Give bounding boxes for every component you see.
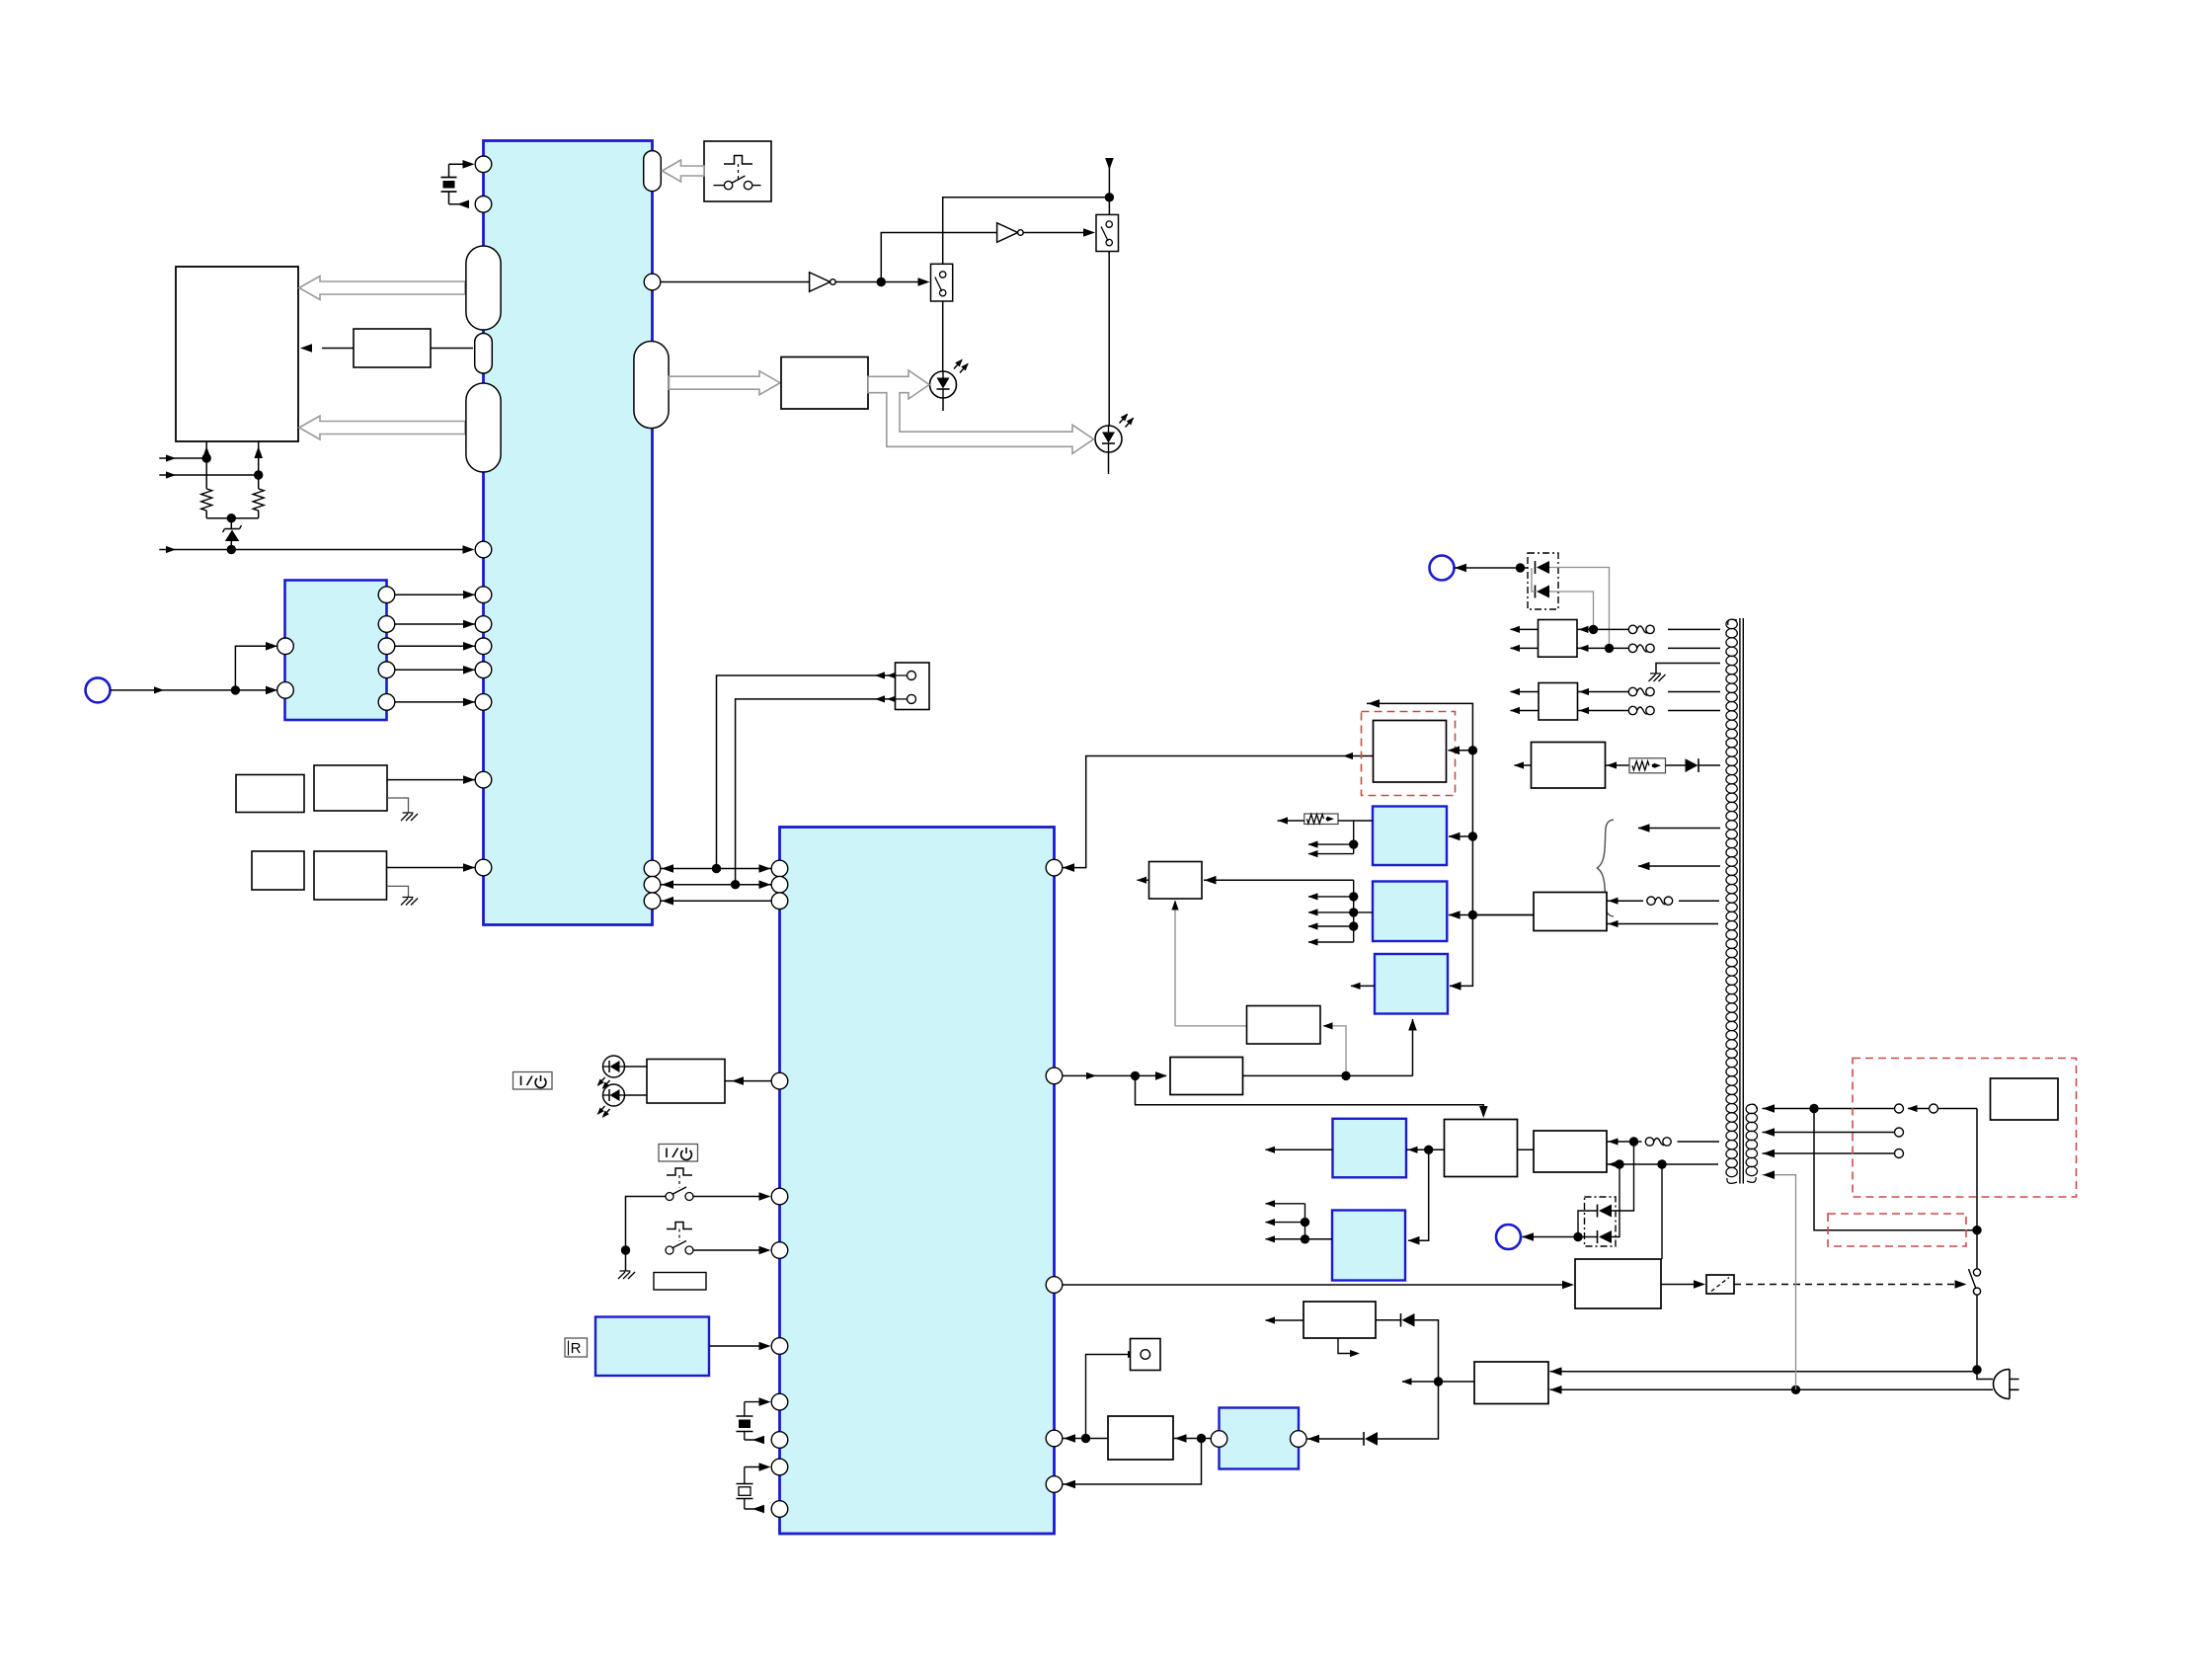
block: rectifier row4 — [1534, 893, 1607, 931]
wire reset line to U1 — [227, 545, 236, 554]
block: LED driver — [781, 357, 868, 410]
fusible resistor FR1 — [1629, 758, 1666, 773]
pin U3 IR in — [771, 1338, 788, 1355]
block: M regulator — [1170, 1058, 1243, 1095]
wires X2 to U3 — [745, 1401, 763, 1403]
hollow arrow LED driver to LEDs (branched) — [868, 370, 1094, 453]
wire riser to connector CN2 line2 — [736, 699, 896, 885]
block: rectifier row3 — [1532, 743, 1606, 789]
wire diode box to CN4 — [1455, 567, 1529, 569]
wire U3 to box E — [1063, 1438, 1108, 1440]
LED D2 (indicator) — [930, 371, 957, 398]
diode D9 — [1666, 764, 1686, 766]
row4 wires — [1472, 914, 1534, 916]
IC U3 main micro / power control (large cyan block) — [780, 828, 1055, 1535]
switch S2 (muting) — [1096, 214, 1119, 251]
pin U3 ac sense 2 — [1046, 1476, 1063, 1493]
block: relay driver — [1575, 1259, 1661, 1308]
pin U3 ac sense — [1046, 1430, 1063, 1447]
fuse F3 — [1628, 687, 1636, 695]
pill U1 key port — [644, 151, 662, 192]
block: display/deck unit (left big box) — [176, 267, 298, 441]
block: regulator IC (cyan 1) — [1373, 807, 1447, 866]
wire lower return to U3 — [1063, 1439, 1202, 1485]
wire small box to U1 pill B — [431, 348, 473, 350]
block: audio in unit (pair2 big) — [314, 851, 387, 900]
AC plug P1 — [1994, 1370, 2019, 1399]
block: rectifier B — [1445, 1120, 1518, 1177]
block: key switch box — [704, 141, 771, 201]
tact switch SW1 power — [667, 1168, 692, 1175]
selector contacts — [1809, 1104, 1818, 1113]
wire S1 to LED1 — [942, 301, 944, 371]
svg-text:R: R — [571, 1340, 582, 1357]
pin U2 right — [378, 638, 395, 655]
wire pair1 ground stub — [387, 798, 409, 813]
pin U3 key2 — [771, 1242, 788, 1259]
pin U3 LED drive — [771, 1072, 788, 1089]
pin U1 power out — [644, 274, 661, 290]
block: jack board (pair1 small) — [236, 775, 304, 813]
pin U1 XTAL2 — [475, 197, 492, 213]
wire cyan A to box B — [1406, 1148, 1445, 1150]
voltage tap terminal — [1895, 1149, 1904, 1158]
wire U2 to U1 — [395, 594, 475, 595]
gray link riser to K — [1323, 1026, 1346, 1076]
pin U3 top left — [771, 876, 788, 893]
pin U3 osc1 — [771, 1459, 788, 1475]
transformer T1 core — [1739, 618, 1741, 1184]
wire U3 to block M — [1063, 1074, 1166, 1076]
bus arrow U1 pill to display box (lower) — [299, 416, 465, 439]
wire SW2 to U3 — [694, 1249, 764, 1251]
pin U3 xtal1 — [771, 1393, 788, 1410]
ground tap row — [1656, 664, 1720, 674]
fuse PF1 — [1645, 1138, 1653, 1146]
wire crystal to U1 pins — [449, 163, 468, 165]
power switch S3 — [1973, 1269, 1980, 1276]
wire pair1 to U1 — [387, 779, 475, 781]
wire B to D — [1518, 1148, 1535, 1150]
block: rectifier row1 — [1539, 620, 1578, 658]
IC U1 system control micro (large cyan block) — [484, 141, 653, 925]
LED D4 power indicator — [603, 1056, 625, 1077]
resistor R-array 1 — [201, 489, 212, 511]
pin U1 left — [475, 638, 492, 655]
block: rectifier row2 — [1539, 683, 1578, 721]
wire junction to inverter Q2 — [881, 233, 996, 282]
wire to headphone circle CN3 — [1523, 1236, 1579, 1238]
red dashed service box 3 (small) — [1828, 1214, 1966, 1246]
resonator X2 — [744, 1402, 746, 1416]
row3 wires — [1515, 764, 1532, 766]
wire M to risers — [1243, 1074, 1413, 1076]
pin U1 pair2 — [475, 859, 492, 876]
wires LEDs to driver box — [625, 1066, 648, 1068]
connector CN3 (blue circle) — [1496, 1225, 1521, 1249]
diode D7 — [1376, 1319, 1401, 1321]
pin U2 right — [378, 694, 395, 711]
block: small label box under switches — [654, 1273, 706, 1291]
bus arrow U1 to LED driver box — [670, 371, 781, 395]
pin U3 key1 — [771, 1188, 788, 1205]
block: IR remote sensor (cyan) — [595, 1317, 709, 1377]
vertical feed bus x=1491 — [1367, 703, 1472, 986]
wires X3 to U3 — [745, 1466, 763, 1468]
wires diodes to junction — [1578, 1211, 1598, 1237]
wire driver to U3 — [725, 1080, 771, 1082]
fuse F4 — [1628, 706, 1636, 714]
cyan2 left cluster — [1353, 880, 1355, 942]
wire S1 top riser — [943, 198, 1110, 264]
pin U2 right — [378, 616, 395, 633]
bus arrow U1 pill to display box (upper) — [299, 277, 465, 300]
pin U3 power sense — [1046, 1068, 1063, 1084]
tact switch SW2 — [667, 1223, 692, 1229]
block: regulator IC (cyan C) — [1332, 1211, 1405, 1281]
selector riser + red dashed box 2 branch — [1976, 1109, 1978, 1269]
gray wires diodes to row junctions — [1549, 568, 1610, 649]
block: F line filter — [1474, 1362, 1548, 1404]
wire U1-U3 bus line — [661, 868, 771, 870]
wire riser to zero-cross circle box — [1086, 1355, 1131, 1439]
wire cyan3 out left — [1351, 985, 1375, 987]
red dashed service box 1 — [1362, 712, 1456, 796]
block: detector K — [1247, 1006, 1321, 1045]
wire SW1 to U3 — [694, 1196, 764, 1198]
block: detector J — [1149, 862, 1203, 900]
wire driver to relay RY1 — [1661, 1284, 1698, 1286]
wire riser to connector CN2 line1 — [717, 675, 896, 869]
pin U3 osc2 — [771, 1501, 788, 1518]
wire U3 to relay driver — [1063, 1284, 1567, 1286]
wire S2 top feed — [1108, 160, 1110, 215]
riser to relay driver — [1661, 1164, 1663, 1259]
LED D5 power indicator — [603, 1084, 625, 1106]
heater tap wires — [1638, 828, 1720, 830]
cyan A to cyan C link — [1408, 1149, 1429, 1240]
wire IR sensor to U3 — [709, 1345, 763, 1347]
wire U1 to inverter Q1 — [661, 281, 810, 283]
resistor R-array 2 — [253, 489, 264, 511]
wire U1-U3 bus line — [661, 884, 771, 886]
wire U2 to U1 — [395, 645, 475, 647]
block: audio in unit (pair1 big) — [314, 765, 387, 811]
ground pair1 — [401, 813, 418, 821]
ground transformer CT — [1649, 673, 1666, 681]
block: regulator STR (in red dashed) — [1374, 721, 1447, 783]
block: photo detector (circle box) — [1131, 1339, 1161, 1371]
pin U1 left — [475, 616, 492, 633]
pin cyan H right — [1291, 1431, 1307, 1448]
pill U1 port C — [466, 383, 501, 472]
pin U1 bottom right — [644, 876, 661, 893]
wire H to diode D8 — [1306, 1438, 1364, 1440]
row1 wires — [1511, 628, 1539, 630]
wires fuse junctions down to diodes — [1612, 1142, 1634, 1211]
resonator X3 (ceramic) — [744, 1467, 746, 1484]
arrow key box to U1 pill — [663, 160, 705, 182]
branch down to box B — [1136, 1075, 1484, 1114]
pin U1 left — [475, 694, 492, 711]
pin U3 xtal2 — [771, 1432, 788, 1449]
wire inverter Q1 to switch S1 — [836, 281, 923, 283]
block: photocoupler (cyan H) — [1220, 1408, 1300, 1469]
wire junction into box F — [1402, 1381, 1439, 1383]
AC line top — [1550, 1371, 1978, 1373]
wire U2 to U1 — [395, 623, 475, 625]
voltage tap terminal — [1895, 1128, 1904, 1137]
block: E filter — [1108, 1416, 1173, 1460]
zener diode D1 — [230, 518, 232, 528]
wire SW1 left leg — [626, 1197, 667, 1251]
wire cyan A out left — [1266, 1148, 1333, 1150]
resistor network above cyan1 — [1304, 814, 1338, 825]
brace heater winding — [1598, 820, 1615, 916]
dual diode D6 (dash-dot box) — [1585, 1197, 1617, 1246]
wire SW2 ground leg — [625, 1250, 627, 1271]
wire D lower to transformer — [1607, 1163, 1718, 1165]
wire U2 to U1 — [395, 669, 475, 671]
gray riser into J bottom — [1174, 901, 1176, 1026]
label power I/O (left) — [513, 1072, 553, 1090]
pill U1 port B — [475, 334, 493, 374]
wire U2 to U1 — [395, 701, 475, 703]
fuse F2 — [1628, 644, 1636, 652]
wire D8 to F riser — [1378, 1382, 1439, 1439]
transformer T1 primary winding — [1746, 1104, 1757, 1182]
primary tap wires — [1763, 1108, 1815, 1110]
pin U3 feedback in — [1046, 859, 1063, 876]
pin U1 bottom right — [644, 860, 661, 877]
gray heater line from primary — [1763, 1175, 1796, 1390]
block: regulator IC (cyan 3) — [1375, 954, 1448, 1014]
wire bus to regulator — [1449, 750, 1473, 752]
wire bus to cyan reg1 — [1449, 835, 1472, 837]
pin cyan H left — [1211, 1431, 1227, 1448]
connector CN2 (2-pin) — [896, 663, 930, 710]
inverter Q2 — [997, 223, 1018, 243]
pin U2 left in1 — [277, 638, 294, 655]
block: LED driver (power) — [647, 1060, 725, 1104]
wire Q2 to switch S2 — [1024, 232, 1088, 234]
label R remote sensor — [565, 1338, 588, 1357]
AC line bottom — [1550, 1388, 1994, 1390]
block: rectifier D — [1534, 1131, 1607, 1172]
pin U1 left — [475, 662, 492, 678]
ground pair2 — [401, 898, 418, 906]
pin U1 left — [475, 587, 492, 603]
pin U1 pair1 — [475, 771, 492, 788]
wire D7 to F riser — [1415, 1320, 1439, 1382]
switch S1 (muting) — [931, 264, 953, 301]
wire bus to cyan reg2 / from AC sub box — [1472, 914, 1534, 916]
drops left of cyan1 — [1353, 821, 1355, 854]
block: G surge limiter — [1303, 1302, 1376, 1338]
label power I/O (switch) — [659, 1145, 698, 1162]
pin U1 XTAL1 — [475, 156, 492, 173]
transformer T1 secondary winding — [1726, 619, 1737, 1183]
block: voltage selector label — [1991, 1078, 2059, 1120]
pill U1 display data port — [634, 342, 669, 429]
wire S2 to LED2 — [1108, 252, 1110, 427]
LED D3 (indicator) — [1095, 426, 1122, 452]
cyan C left cluster — [1266, 1238, 1333, 1240]
red dashed service box 2 (big, voltage selector) — [1853, 1059, 2077, 1198]
gray link K to J — [1175, 1025, 1247, 1027]
wire box J to riser — [1204, 879, 1354, 881]
tact switch symbol in key box — [724, 156, 752, 165]
wire display box bottom pulldowns — [205, 441, 207, 489]
wire small box to display box — [322, 348, 354, 350]
inverter Q1 — [810, 273, 830, 292]
wire resistor bottoms join — [205, 511, 207, 518]
jog joining diodes — [1532, 568, 1536, 592]
pin U2 left in2 — [277, 682, 294, 699]
wire S3 to AC plug junction — [1976, 1295, 1978, 1370]
dual diode D5 (dash-dot box top) — [1528, 553, 1558, 609]
wire U1-U3 bus line — [661, 900, 771, 902]
crystal X1 — [448, 164, 450, 177]
relay RY1 — [1706, 1275, 1734, 1294]
block: regulator IC (cyan 2) — [1373, 882, 1447, 942]
wire CN1 to U2 — [111, 689, 277, 691]
connector CN1 (blue circle) — [86, 677, 111, 702]
row2 wires — [1511, 691, 1540, 693]
wire G out left — [1266, 1319, 1304, 1321]
fuse F1 — [1628, 625, 1636, 633]
pin U3 top left — [771, 893, 788, 910]
wire G bottom stub — [1338, 1338, 1353, 1354]
fuse F5 — [1647, 897, 1655, 905]
block: jack board (pair2 small) — [252, 851, 304, 890]
pin U2 right — [378, 587, 395, 603]
connector CN4 (blue circle top) — [1430, 556, 1455, 581]
wire dashed-box regulator to U3 — [1063, 756, 1374, 868]
wire CN2 pin stubs — [896, 674, 908, 676]
block: small driver box between display and U1 — [354, 329, 431, 367]
wire pair2 to U1 — [387, 867, 475, 869]
IC U2 interface (small cyan block) — [285, 581, 387, 721]
pin U1 bottom right — [644, 893, 661, 910]
pin U1 reset — [475, 541, 492, 558]
wire D upper to fuse to transformer — [1607, 1141, 1719, 1143]
ground SW ladder — [618, 1271, 635, 1279]
pin U3 top left — [771, 860, 788, 877]
dashed mech link relay to power switch — [1734, 1284, 1959, 1286]
pin U3 relay drive — [1046, 1277, 1063, 1294]
pill U1 port A — [466, 246, 501, 330]
wire pair2 ground stub — [387, 886, 409, 897]
block: regulator IC (cyan A) — [1333, 1119, 1407, 1178]
pin U2 right — [378, 662, 395, 678]
wire box E to cyan H — [1173, 1438, 1211, 1440]
